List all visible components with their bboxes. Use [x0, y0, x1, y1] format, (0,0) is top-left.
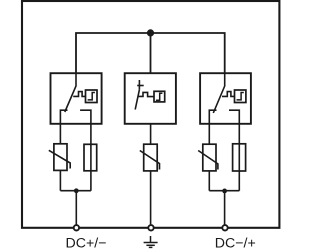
svg-text:DC−/+: DC−/+: [215, 235, 256, 250]
svg-text:DC+/−: DC+/−: [65, 235, 106, 250]
node junction dot right: [222, 189, 227, 194]
disconnector U2 switch blade: [135, 90, 139, 110]
disconnector U3 trigger linkage: [222, 92, 235, 97]
wire to terminal DC-/+: [224, 191, 226, 225]
label DC-/+: [215, 235, 256, 250]
disconnector U3 thermal element square: [235, 90, 246, 103]
disconnector U1 box: [51, 73, 102, 124]
wire middle drop: [150, 33, 152, 73]
wire bottom connector left: [60, 190, 91, 192]
terminal circle earth: [148, 225, 153, 230]
disconnector U2 box: [125, 73, 176, 124]
disconnector U2 lead: [138, 80, 140, 90]
disconnector U3 fixed contact staple: [209, 110, 239, 191]
wire to terminal DC+/-: [75, 191, 77, 225]
label DC+/-: [65, 235, 106, 250]
disconnector U1 thermal element square: [86, 90, 98, 103]
varistor RV3: [198, 144, 218, 191]
terminal circle DC+/-: [74, 225, 79, 230]
disconnector U2 trigger linkage: [138, 92, 154, 96]
node junction dot left: [74, 188, 79, 193]
wire bottom connector right: [209, 190, 239, 192]
ground symbol: [144, 236, 158, 247]
disconnector U1 step glyph: [88, 93, 95, 100]
terminal circle DC-/+: [222, 225, 227, 230]
disconnector U1 trigger linkage: [73, 92, 85, 97]
disconnector U3 box: [200, 73, 251, 124]
disconnector U2 thermal element square: [154, 91, 165, 102]
fuse F1: [84, 144, 97, 171]
disconnector U3 switch blade: [213, 73, 224, 113]
disconnector U2 contact tick: [137, 85, 144, 87]
disconnector U1 switch blade: [65, 73, 76, 112]
disconnector U2 step glyph: [156, 93, 163, 100]
node junction dot on bus: [147, 29, 154, 36]
disconnector U1 fixed contact staple: [60, 110, 91, 191]
wire top bus: [76, 33, 225, 73]
fuse F2: [233, 144, 246, 171]
disconnector U3 step glyph: [237, 93, 244, 100]
varistor RV1: [49, 144, 70, 191]
varistor RV2: [140, 124, 160, 225]
